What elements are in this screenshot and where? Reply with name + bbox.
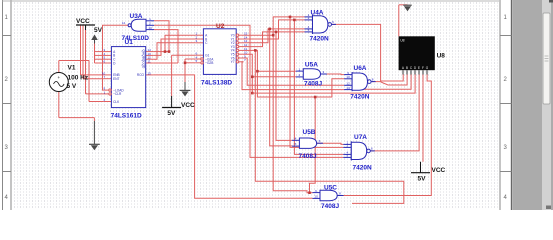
svg-text:QAQBQCQD: QAQBQCQD bbox=[142, 50, 146, 69]
svg-text:Y7: Y7 bbox=[231, 60, 235, 64]
svg-text:U6A: U6A bbox=[354, 65, 367, 72]
svg-text:7420N: 7420N bbox=[353, 164, 372, 171]
svg-text:U3A: U3A bbox=[130, 13, 143, 20]
svg-text:VCC: VCC bbox=[181, 102, 195, 109]
svg-text:74LS10D: 74LS10D bbox=[122, 35, 150, 42]
svg-text:U5B: U5B bbox=[303, 129, 316, 136]
svg-text:5V: 5V bbox=[418, 176, 427, 183]
svg-text:RCO: RCO bbox=[137, 73, 145, 77]
svg-text:V1: V1 bbox=[68, 64, 76, 71]
svg-text:15: 15 bbox=[148, 71, 152, 75]
svg-text:74LS138D: 74LS138D bbox=[201, 80, 232, 87]
svg-text:5 V: 5 V bbox=[67, 83, 77, 90]
svg-text:U7A: U7A bbox=[354, 134, 367, 141]
svg-text:U4A: U4A bbox=[311, 9, 324, 16]
svg-text:U2: U2 bbox=[216, 23, 225, 30]
svg-text:100 Hz: 100 Hz bbox=[68, 74, 89, 81]
svg-text:12: 12 bbox=[122, 21, 126, 25]
svg-text:~G2B: ~G2B bbox=[205, 61, 213, 65]
svg-text:~CLR: ~CLR bbox=[113, 92, 122, 96]
svg-text:7420N: 7420N bbox=[350, 93, 369, 100]
svg-text:+: + bbox=[57, 75, 60, 80]
svg-text:VCC: VCC bbox=[76, 18, 90, 25]
svg-text:5V: 5V bbox=[167, 110, 176, 117]
svg-text:10: 10 bbox=[314, 195, 318, 199]
svg-text:U8: U8 bbox=[437, 53, 446, 60]
svg-text:10: 10 bbox=[346, 75, 350, 79]
svg-text:7408J: 7408J bbox=[304, 80, 322, 87]
svg-text:ENT: ENT bbox=[113, 77, 119, 81]
svg-text:13: 13 bbox=[346, 86, 350, 90]
svg-text:74LS161D: 74LS161D bbox=[111, 112, 142, 119]
svg-text:5V: 5V bbox=[94, 27, 103, 34]
svg-text:7408J: 7408J bbox=[299, 153, 317, 160]
svg-text:E: E bbox=[418, 66, 420, 70]
svg-text:U5C: U5C bbox=[324, 184, 337, 191]
svg-text:B: B bbox=[406, 66, 408, 70]
svg-text:VCC: VCC bbox=[432, 167, 446, 174]
svg-text:7408J: 7408J bbox=[321, 203, 339, 210]
svg-text:F: F bbox=[422, 66, 424, 70]
svg-text:13: 13 bbox=[148, 26, 152, 30]
svg-text:U5A: U5A bbox=[305, 61, 318, 68]
svg-text:U8: U8 bbox=[400, 38, 404, 42]
svg-text:CLK: CLK bbox=[113, 100, 120, 104]
svg-text:7420N: 7420N bbox=[310, 36, 329, 43]
svg-text:11: 11 bbox=[148, 59, 151, 63]
